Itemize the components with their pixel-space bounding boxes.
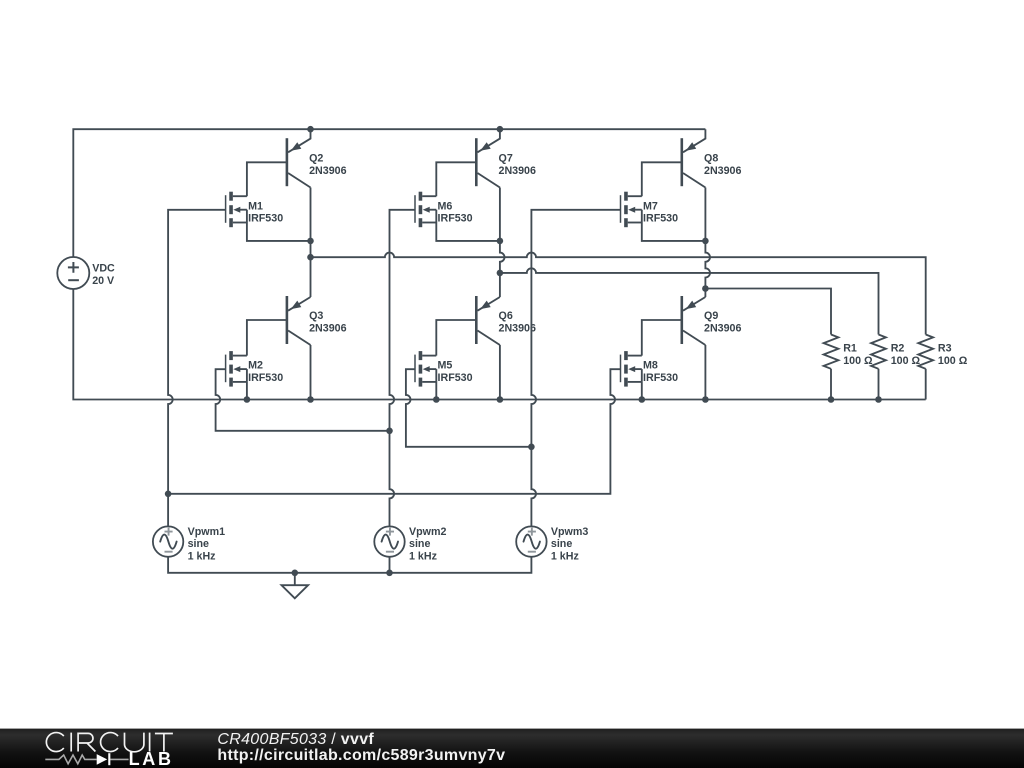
wire Q6 base to M5 drain [436, 320, 476, 356]
svg-text:LAB: LAB [129, 749, 174, 768]
wire Q2 collector to mid node [310, 188, 312, 241]
wire M7 gate to Vpwm3 (vertical bus x=531.4) [531, 210, 620, 527]
transistor Q2 PNP 2N3906 [287, 129, 311, 187]
label M2 IRF530 [248, 360, 283, 384]
svg-text:100 Ω: 100 Ω [938, 355, 968, 367]
junction mid node phase C [702, 238, 709, 245]
voltage source Vpwm3 sine 1 kHz [516, 526, 546, 556]
svg-text:2N3906: 2N3906 [704, 165, 741, 177]
svg-text:20 V: 20 V [92, 275, 115, 287]
svg-text:sine: sine [188, 538, 209, 550]
svg-text:2N3906: 2N3906 [499, 323, 536, 335]
svg-text:1 kHz: 1 kHz [188, 551, 216, 563]
junction Vpwm2 bus / M2 gate row [386, 428, 393, 435]
wire Q9 collector to bottom rail [704, 345, 706, 400]
svg-text:2N3906: 2N3906 [499, 165, 536, 177]
wire Q7 collector to mid node [499, 188, 501, 241]
svg-text:2N3906: 2N3906 [704, 323, 741, 335]
wire phase A to R3 [311, 253, 926, 335]
ground [282, 573, 309, 599]
label Q8 2N3906 [704, 153, 741, 177]
svg-text:Vpwm2: Vpwm2 [409, 526, 446, 538]
voltage source VDC [57, 257, 89, 289]
svg-text:Q8: Q8 [704, 153, 718, 165]
wire Q2 base to M1 drain [247, 162, 287, 196]
junction R2 / bottom rail [875, 396, 882, 403]
wire M6 source to mid node [436, 223, 500, 241]
wire mid node down to phase line C [705, 241, 710, 289]
label Vpwm1 sine 1 kHz [188, 526, 225, 563]
wire bottom rail (VDC- / sources / resistor returns) [73, 289, 925, 400]
svg-text:Q2: Q2 [309, 153, 323, 165]
mosfet M6 IRF530 (upper) [415, 192, 436, 228]
mosfet M1 IRF530 (upper) [226, 192, 247, 228]
label M7 IRF530 [643, 200, 678, 224]
junction Vpwm2 / ground bus [386, 570, 393, 577]
label R2 100 Ω [891, 343, 921, 367]
svg-text:1 kHz: 1 kHz [409, 551, 437, 563]
wire Q9 base to M8 drain [642, 320, 682, 356]
label Vpwm2 sine 1 kHz [409, 526, 446, 563]
wire M2 source to bottom rail [246, 382, 248, 400]
label M8 IRF530 [643, 360, 678, 384]
wire Q7 base to M6 drain [436, 162, 476, 196]
resistor R3 100 Ω [918, 335, 933, 400]
svg-text:M6: M6 [438, 200, 453, 212]
wire M7 source to mid node [642, 223, 706, 241]
wire phase C to R1 [705, 289, 831, 335]
label Vpwm3 sine 1 kHz [551, 526, 588, 563]
mosfet M8 IRF530 (lower) [621, 351, 642, 387]
wire M6 gate to Vpwm2 (vertical bus x=389.5) [390, 210, 416, 527]
resistor R1 100 Ω [824, 335, 839, 400]
junction Vpwm1 bus / M8 gate row [165, 491, 172, 498]
label VDC 20 V [92, 262, 115, 287]
wire Q8 base to M7 drain [642, 162, 682, 196]
svg-text:Q7: Q7 [499, 153, 513, 165]
svg-text:VDC: VDC [92, 262, 115, 274]
junction Q9 collector / bottom rail [702, 396, 709, 403]
junction R1 / bottom rail [828, 396, 835, 403]
svg-text:R2: R2 [891, 343, 905, 355]
svg-text:IRF530: IRF530 [643, 372, 678, 384]
transistor Q8 PNP 2N3906 [682, 129, 706, 187]
resistor R2 100 Ω [871, 335, 886, 400]
label Q2 2N3906 [309, 153, 346, 177]
svg-text:M7: M7 [643, 200, 658, 212]
CircuitLab logo text CIRCUIT (drawn letters) [46, 733, 173, 752]
svg-text:sine: sine [551, 538, 572, 550]
svg-text:2N3906: 2N3906 [309, 165, 346, 177]
mosfet M5 IRF530 (lower) [415, 351, 436, 387]
voltage source Vpwm2 sine 1 kHz [374, 526, 404, 556]
wire Q6 collector to bottom rail [499, 345, 501, 400]
wire M2 gate to Vpwm2 bus [216, 369, 390, 431]
wire M5 source to bottom rail [435, 382, 437, 400]
junction phase line C tap [702, 285, 709, 292]
svg-text:Q6: Q6 [499, 310, 513, 322]
junction M8 source / bottom rail [639, 396, 646, 403]
svg-text:IRF530: IRF530 [248, 213, 283, 225]
footer bar [0, 729, 1024, 768]
svg-text:Vpwm3: Vpwm3 [551, 526, 588, 538]
wire Q3 base to M2 drain [247, 320, 287, 356]
svg-text:100 Ω: 100 Ω [843, 355, 873, 367]
label M5 IRF530 [438, 360, 473, 384]
wire Vpwm negative terminals to ground bus [168, 557, 531, 573]
mosfet M2 IRF530 (lower) [226, 351, 247, 387]
svg-text:Q9: Q9 [704, 310, 718, 322]
wire phase B to R2 [500, 268, 879, 334]
junction top rail / Q2 emitter [307, 126, 314, 133]
junction Q3 collector / bottom rail [307, 396, 314, 403]
wire Vpwm2 negative stub [389, 557, 391, 573]
label Q9 2N3906 [704, 310, 741, 334]
junction top rail / Q7 emitter [497, 126, 504, 133]
label R1 100 Ω [843, 343, 873, 367]
junction phase line A tap [307, 254, 314, 261]
svg-text:IRF530: IRF530 [248, 372, 283, 384]
wire M5 gate to Vpwm3 bus [406, 369, 532, 447]
svg-text:sine: sine [409, 538, 430, 550]
transistor Q9 PNP 2N3906 [682, 289, 706, 346]
svg-text:M1: M1 [248, 200, 263, 212]
junction ground tap [292, 570, 299, 577]
junction M2 source / bottom rail [244, 396, 251, 403]
junction phase line B tap [497, 270, 504, 277]
svg-text:R1: R1 [843, 343, 857, 355]
transistor Q3 PNP 2N3906 [287, 257, 311, 345]
transistor Q6 PNP 2N3906 [476, 273, 500, 345]
wire Q8 collector to mid node [704, 188, 706, 241]
label Q6 2N3906 [499, 310, 536, 334]
svg-text:2N3906: 2N3906 [309, 323, 346, 335]
wire top rail from VDC+ to Q2/Q7/Q8 emitters [73, 129, 705, 257]
label Q3 2N3906 [309, 310, 346, 334]
junction mid node phase A [307, 238, 314, 245]
wire M8 gate to Vpwm1 bus [168, 369, 620, 494]
voltage source Vpwm1 sine 1 kHz [153, 526, 183, 556]
wire Q3 collector to bottom rail [310, 345, 312, 400]
label R3 100 Ω [938, 343, 968, 367]
svg-text:CR400BF5033 / vvvf: CR400BF5033 / vvvf [217, 731, 374, 748]
svg-text:M5: M5 [438, 360, 453, 372]
svg-text:Vpwm1: Vpwm1 [188, 526, 225, 538]
wire M1 gate to Vpwm1 (vertical bus x=168) [168, 210, 226, 527]
wire mid node down to phase line B [500, 241, 505, 273]
wire M8 source to bottom rail [641, 382, 643, 400]
junction Vpwm3 bus / M5 gate row [528, 444, 535, 451]
svg-text:IRF530: IRF530 [643, 213, 678, 225]
svg-text:Q3: Q3 [309, 310, 323, 322]
label Q7 2N3906 [499, 153, 536, 177]
CircuitLab logo diode [97, 753, 110, 765]
svg-text:IRF530: IRF530 [438, 213, 473, 225]
wire mid node down to phase line A [310, 241, 312, 257]
label M6 IRF530 [438, 200, 473, 224]
svg-text:M8: M8 [643, 360, 658, 372]
svg-text:1 kHz: 1 kHz [551, 551, 579, 563]
svg-text:100 Ω: 100 Ω [891, 355, 921, 367]
label M1 IRF530 [248, 200, 283, 224]
junction mid node phase B [497, 238, 504, 245]
junction M5 source / bottom rail [433, 396, 440, 403]
svg-text:http://circuitlab.com/c589r3um: http://circuitlab.com/c589r3umvny7v [217, 747, 505, 764]
svg-text:M2: M2 [248, 360, 263, 372]
svg-text:R3: R3 [938, 343, 952, 355]
mosfet M7 IRF530 (upper) [621, 192, 642, 228]
svg-text:IRF530: IRF530 [438, 372, 473, 384]
transistor Q7 PNP 2N3906 [476, 129, 500, 187]
CircuitLab logo resistor-diode glyph [45, 755, 128, 764]
junction Q6 collector / bottom rail [497, 396, 504, 403]
wire M1 source to mid node [247, 223, 311, 241]
